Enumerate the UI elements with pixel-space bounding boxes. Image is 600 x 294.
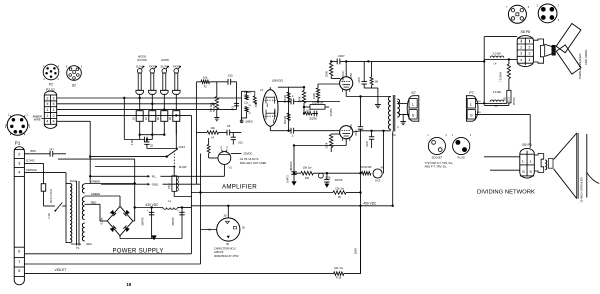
svg-text:450 VDC: 450 VDC bbox=[363, 201, 377, 205]
svg-text:1-1/2: 1-1/2 bbox=[48, 213, 51, 219]
svg-text:260V: 260V bbox=[354, 248, 358, 254]
svg-text:300K: 300K bbox=[254, 101, 258, 107]
svg-text:10Ω: 10Ω bbox=[306, 108, 311, 112]
svg-text:.015: .015 bbox=[238, 140, 244, 144]
svg-text:7.8 OHM: 7.8 OHM bbox=[498, 72, 502, 82]
svg-text:6.3 5a: 6.3 5a bbox=[101, 217, 104, 224]
svg-text:1MEG: 1MEG bbox=[244, 90, 252, 94]
svg-text:430 VDC: 430 VDC bbox=[145, 203, 159, 207]
svg-text:(4,5,9): (4,5,9) bbox=[222, 151, 228, 153]
svg-text:3: 3 bbox=[520, 52, 522, 56]
svg-text:15VDC: 15VDC bbox=[329, 108, 333, 116]
svg-text:PLUG: PLUG bbox=[458, 156, 465, 160]
svg-text:POWER SUPPLY: POWER SUPPLY bbox=[113, 248, 164, 254]
svg-text:S: S bbox=[412, 113, 415, 118]
svg-text:1: 1 bbox=[46, 108, 48, 112]
svg-text:VOL ADJ: VOL ADJ bbox=[210, 103, 213, 112]
svg-text:12k 2w: 12k 2w bbox=[335, 187, 345, 191]
svg-text:34: 34 bbox=[144, 117, 148, 120]
svg-text:P1: P1 bbox=[15, 141, 21, 146]
svg-text:2: 2 bbox=[520, 45, 522, 49]
svg-text:L2c: L2c bbox=[244, 100, 249, 104]
svg-text:12.5: 12.5 bbox=[508, 97, 511, 102]
svg-text:R 18: R 18 bbox=[336, 277, 342, 280]
svg-text:10k 7w: 10k 7w bbox=[334, 266, 344, 270]
svg-text:OC3: OC3 bbox=[375, 179, 381, 183]
svg-text:BLUE: BLUE bbox=[70, 179, 77, 183]
svg-text:3: 3 bbox=[53, 96, 55, 100]
svg-text:AND P-T, TRV, S/L.: AND P-T, TRV, S/L. bbox=[425, 165, 448, 169]
svg-text:CAPACITOR NO.5: CAPACITOR NO.5 bbox=[214, 246, 236, 250]
svg-text:30/475: 30/475 bbox=[335, 178, 343, 182]
svg-text:12AU7: 12AU7 bbox=[273, 107, 277, 115]
svg-text:6550: 6550 bbox=[349, 124, 353, 130]
svg-text:1M: 1M bbox=[374, 80, 378, 84]
svg-text:.1 65: .1 65 bbox=[130, 140, 134, 146]
svg-text:1/2 OF 12 AU7A: 1/2 OF 12 AU7A bbox=[240, 157, 259, 161]
svg-text:S: S bbox=[529, 169, 532, 174]
svg-text:R10: R10 bbox=[305, 178, 310, 180]
svg-text:1MEG: 1MEG bbox=[245, 120, 253, 124]
svg-text:3A SLO-BLO: 3A SLO-BLO bbox=[50, 189, 53, 203]
svg-text:P2 S2: P2 S2 bbox=[46, 88, 55, 92]
svg-text:30/30/30/10 AT 475V.: 30/30/30/10 AT 475V. bbox=[214, 254, 239, 258]
svg-text:.05: .05 bbox=[227, 124, 231, 128]
svg-text:+R: +R bbox=[380, 168, 383, 170]
svg-text:TYP FOR S-T, TRV, S/L,: TYP FOR S-T, TRV, S/L, bbox=[425, 161, 454, 165]
svg-text:.001: .001 bbox=[231, 105, 235, 111]
svg-text:56K1W: 56K1W bbox=[284, 115, 287, 124]
svg-text:S: S bbox=[522, 169, 525, 174]
svg-text:202/50: 202/50 bbox=[309, 117, 317, 121]
svg-text:P7: P7 bbox=[469, 91, 473, 95]
svg-text:3.2 MH: 3.2 MH bbox=[492, 52, 500, 56]
svg-text:FIL.: FIL. bbox=[152, 175, 157, 179]
svg-text:T1: T1 bbox=[76, 246, 80, 250]
svg-text:GND.: GND. bbox=[152, 183, 159, 187]
svg-text:6550: 6550 bbox=[349, 73, 353, 79]
svg-text:WIRE: WIRE bbox=[34, 118, 41, 122]
svg-text:2.6 MH: 2.6 MH bbox=[493, 90, 501, 94]
svg-text:RED: RED bbox=[91, 200, 97, 204]
svg-text:25VDC: 25VDC bbox=[243, 151, 252, 155]
svg-text:5: 5 bbox=[53, 102, 55, 106]
svg-text:250/50S: 250/50S bbox=[290, 161, 293, 170]
svg-text:.0047: .0047 bbox=[354, 129, 358, 136]
svg-text:4: 4 bbox=[520, 58, 522, 62]
svg-text:TREBLE SPEAKER: TREBLE SPEAKER bbox=[578, 54, 582, 80]
svg-text:SLOW: SLOW bbox=[179, 165, 187, 169]
svg-text:GREEN: GREEN bbox=[91, 180, 100, 184]
svg-text:P2: P2 bbox=[49, 83, 53, 87]
svg-text:19: 19 bbox=[126, 282, 131, 287]
svg-text:2: 2 bbox=[528, 45, 530, 49]
svg-text:360K: 360K bbox=[298, 96, 302, 102]
svg-text:R7: R7 bbox=[249, 113, 251, 115]
svg-text:10k: 10k bbox=[210, 126, 215, 130]
svg-text:S2: S2 bbox=[72, 84, 76, 88]
svg-text:2: 2 bbox=[53, 114, 55, 118]
svg-text:15 INCH SPEAKER: 15 INCH SPEAKER bbox=[580, 177, 584, 203]
svg-text:10k 1w: 10k 1w bbox=[303, 165, 313, 169]
svg-text:(180VDC): (180VDC) bbox=[342, 70, 345, 81]
svg-text:30/475: 30/475 bbox=[171, 217, 175, 226]
svg-text:3: 3 bbox=[528, 52, 530, 56]
svg-text:AND HORN: AND HORN bbox=[584, 50, 588, 65]
svg-text:117VAC: 117VAC bbox=[26, 159, 35, 162]
svg-text:470Ω 5W: 470Ω 5W bbox=[361, 165, 372, 169]
svg-text:S7: S7 bbox=[411, 91, 415, 95]
svg-text:WHITE: WHITE bbox=[513, 97, 516, 105]
svg-text:150Ω10W: 150Ω10W bbox=[312, 101, 324, 105]
svg-text:DIVIDING NETWORK: DIVIDING NETWORK bbox=[477, 189, 535, 195]
svg-text:5: 5 bbox=[46, 102, 48, 106]
svg-text:HORN: HORN bbox=[161, 58, 169, 62]
svg-text:AMPLIFIER: AMPLIFIER bbox=[222, 184, 257, 191]
svg-text:.0047: .0047 bbox=[365, 140, 369, 147]
svg-text:L1: L1 bbox=[168, 199, 171, 203]
svg-text:.0047: .0047 bbox=[338, 54, 345, 58]
svg-text:PR.1: PR.1 bbox=[167, 183, 171, 189]
svg-text:4: 4 bbox=[46, 120, 48, 124]
svg-text:ORANGE: ORANGE bbox=[26, 169, 37, 172]
svg-text:RED: RED bbox=[477, 112, 482, 114]
svg-text:ROTOR: ROTOR bbox=[137, 58, 146, 62]
svg-text:S: S bbox=[470, 113, 473, 118]
svg-text:33: 33 bbox=[132, 117, 136, 120]
svg-text:RED: RED bbox=[86, 243, 91, 246]
svg-text:330K: 330K bbox=[325, 71, 329, 77]
svg-text:G: G bbox=[220, 146, 222, 150]
svg-text:4: 4 bbox=[528, 58, 530, 62]
svg-text:1: 1 bbox=[53, 108, 55, 112]
svg-text:.047: .047 bbox=[49, 148, 55, 152]
svg-text:SOCKET: SOCKET bbox=[432, 156, 443, 160]
svg-text:AND P6: AND P6 bbox=[214, 250, 224, 254]
svg-text:100K: 100K bbox=[312, 93, 316, 99]
svg-text:35: 35 bbox=[156, 117, 160, 120]
svg-text:36: 36 bbox=[168, 117, 172, 120]
svg-text:10/475: 10/475 bbox=[285, 175, 289, 183]
svg-text:30/475: 30/475 bbox=[141, 217, 145, 226]
svg-text:S8 P8: S8 P8 bbox=[521, 30, 531, 34]
svg-text:VIOLET: VIOLET bbox=[55, 268, 67, 272]
svg-text:2: 2 bbox=[46, 114, 48, 118]
svg-text:0.5A: 0.5A bbox=[325, 176, 331, 180]
svg-text:2ND HALF NOT USED: 2ND HALF NOT USED bbox=[240, 161, 267, 165]
svg-text:S9 P9: S9 P9 bbox=[522, 143, 532, 147]
svg-text:R6: R6 bbox=[249, 105, 251, 107]
svg-text:(180VDC): (180VDC) bbox=[272, 79, 283, 83]
svg-text:.015: .015 bbox=[227, 74, 233, 78]
svg-text:FAST: FAST bbox=[179, 145, 186, 149]
svg-text:500K R2: 500K R2 bbox=[214, 102, 216, 112]
svg-text:10k: 10k bbox=[203, 75, 208, 79]
svg-text:BRN: BRN bbox=[31, 150, 36, 153]
svg-text:.0047: .0047 bbox=[357, 76, 361, 83]
svg-text:3: 3 bbox=[46, 96, 48, 100]
svg-text:4: 4 bbox=[53, 120, 55, 124]
